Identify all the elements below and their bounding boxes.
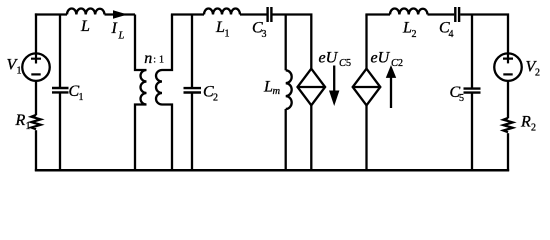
svg-text:2: 2 xyxy=(412,29,417,40)
svg-text:1: 1 xyxy=(17,66,22,77)
wire V2 to R2 xyxy=(507,81,509,119)
wire C5 branch top xyxy=(471,15,473,89)
V1 plus sign xyxy=(31,54,41,64)
wire C5 branch bottom xyxy=(471,93,473,170)
svg-text:L: L xyxy=(215,19,225,36)
svg-text:1: 1 xyxy=(159,55,164,66)
svg-text:n: n xyxy=(144,50,152,67)
resistor R2 xyxy=(503,118,512,132)
wire diamond 2 bottom xyxy=(365,105,367,170)
wire C3 to diamond 1 corner xyxy=(273,15,312,69)
capacitor C4 xyxy=(455,7,459,22)
capacitor C3 xyxy=(268,7,272,22)
voltage source V2 xyxy=(494,53,522,81)
wire from L to transformer xyxy=(105,13,136,15)
svg-text:1: 1 xyxy=(225,29,230,40)
capacitor C1 xyxy=(52,88,69,92)
wire Lm branch bottom xyxy=(285,109,287,170)
svg-text:2: 2 xyxy=(398,58,403,69)
eU_C2 arrow (up) xyxy=(390,77,392,108)
svg-text:m: m xyxy=(273,86,281,97)
transformer primary winding xyxy=(135,15,147,171)
wire top-left horizontal xyxy=(35,13,67,15)
inductor Lm xyxy=(286,70,292,109)
wire L1 to C3 xyxy=(240,13,267,15)
svg-text:L: L xyxy=(263,79,273,96)
wire top rail 2 (secondary to L1) xyxy=(171,13,204,15)
svg-text:5: 5 xyxy=(346,58,351,69)
inductor L xyxy=(67,9,105,15)
wire bottom rail xyxy=(35,169,509,172)
svg-text:5: 5 xyxy=(459,93,464,104)
dependent source eU_C2 diamond xyxy=(353,69,381,106)
wire diamond 1 bottom xyxy=(310,105,312,170)
V2 plus sign xyxy=(503,54,513,64)
wire C4 to V2 corner xyxy=(460,15,508,54)
wire Lm branch top xyxy=(285,15,287,71)
V2 minus sign xyxy=(503,73,512,75)
capacitor C5 xyxy=(464,89,481,93)
eU_C5 arrow (down) xyxy=(333,66,335,94)
wire R1 to bottom xyxy=(35,130,37,171)
wire left vertical top xyxy=(35,13,37,53)
svg-text:eU: eU xyxy=(319,50,339,67)
wire R2 to bottom xyxy=(507,133,509,171)
svg-text:2: 2 xyxy=(213,93,218,104)
capacitor C2 xyxy=(184,88,202,92)
svg-text:L: L xyxy=(402,20,412,37)
wire top rail 3 (diamond 2 to L2) xyxy=(365,13,390,15)
wire diamond 2 top xyxy=(365,15,367,69)
current arrow I_L xyxy=(113,10,128,18)
svg-text:L: L xyxy=(118,31,125,42)
inductor L1 xyxy=(204,9,240,15)
wire L2 to C4 xyxy=(428,13,455,15)
svg-text::: : xyxy=(153,55,156,66)
wire C1 branch top xyxy=(59,15,61,89)
voltage source V1 xyxy=(22,53,50,81)
svg-text:3: 3 xyxy=(262,29,267,40)
svg-text:eU: eU xyxy=(371,50,391,67)
wire V1 to R1 xyxy=(35,81,37,116)
svg-text:1: 1 xyxy=(79,92,84,103)
resistor R1 xyxy=(31,115,40,129)
svg-text:4: 4 xyxy=(449,29,454,40)
V1 minus sign xyxy=(31,73,40,75)
svg-text:2: 2 xyxy=(535,68,540,79)
svg-text:L: L xyxy=(80,18,90,35)
transformer secondary winding xyxy=(156,15,172,171)
svg-text:I: I xyxy=(111,20,118,37)
wire C1 branch bottom xyxy=(59,92,61,170)
inductor L2 xyxy=(390,8,428,14)
svg-text:2: 2 xyxy=(531,123,536,134)
svg-text:R: R xyxy=(520,114,531,131)
wire C2 branch top xyxy=(191,15,193,89)
svg-text:1: 1 xyxy=(26,121,31,132)
dependent source eU_C5 diamond xyxy=(298,69,326,106)
wire C2 branch bottom xyxy=(191,93,193,171)
svg-text:R: R xyxy=(15,112,26,129)
